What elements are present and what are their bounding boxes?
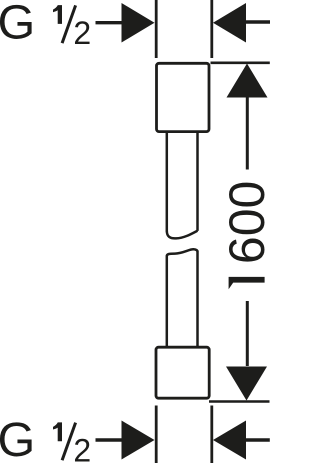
svg-text:2: 2 [73,15,91,51]
bottom reference line to 1600 dimension [209,400,270,403]
bottom right dimension arrow tail [246,438,270,441]
bottom right dimension arrowhead [213,421,246,460]
svg-text:600: 600 [219,181,275,264]
bottom dimension extension line right [210,406,213,463]
dimension value digit 1 (rotated) [229,277,265,289]
lower hose nut [156,347,209,398]
upper hose nut (conical connector) [157,63,210,131]
fraction slash (top) [62,5,76,43]
top dimension extension line left [155,0,158,58]
svg-text:2: 2 [73,432,91,463]
fraction 1/2 (top) numerator 1 [53,5,62,24]
1600 dimension line lower segment [246,301,249,366]
hose lower segment left outline [166,256,169,349]
1600 dimension up arrowhead [227,64,268,98]
top dimension extension line right [210,0,213,58]
1600 dimension line upper segment [246,97,249,170]
bottom dimension extension line left [155,406,158,463]
hose upper segment left outline [166,133,169,232]
top reference line to 1600 dimension [211,61,270,64]
top left dimension arrowhead [122,3,155,43]
hose lower segment right outline [196,252,199,349]
bottom left dimension arrowhead [122,421,155,460]
svg-text:G: G [0,0,35,50]
top right dimension arrow tail [246,20,270,23]
top left dimension arrow tail [96,21,123,24]
hose upper segment right outline [196,133,199,231]
hose break wave lower [167,249,198,256]
bottom left dimension arrow tail [96,438,123,441]
fraction 1/2 (bottom) numerator 1 [53,422,62,441]
svg-text:G: G [0,413,35,463]
1600 dimension down arrowhead [226,367,267,401]
top right dimension arrowhead [213,3,246,43]
hose break wave upper [167,231,198,239]
fraction slash (bottom) [62,423,76,461]
